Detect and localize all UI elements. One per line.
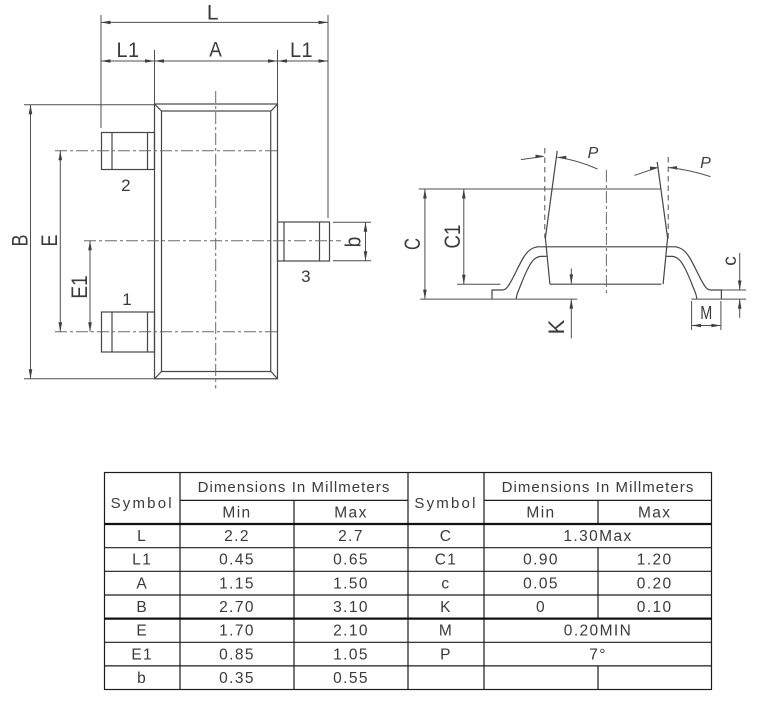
angle dimension P left — [521, 145, 599, 169]
body top edge with C extension — [419, 188, 662, 190]
svg-text:L1: L1 — [117, 39, 140, 62]
svg-text:E: E — [37, 235, 62, 247]
svg-text:1.70: 1.70 — [219, 623, 255, 640]
svg-text:c: c — [720, 256, 741, 266]
svg-text:0.05: 0.05 — [523, 575, 559, 592]
svg-text:3.10: 3.10 — [333, 599, 369, 616]
svg-text:b: b — [341, 237, 366, 248]
lead entry line — [537, 246, 676, 248]
svg-text:Min: Min — [526, 505, 555, 522]
svg-text:L: L — [207, 2, 219, 25]
svg-text:B: B — [8, 235, 33, 247]
svg-text:0.10: 0.10 — [637, 599, 673, 616]
dimension C — [400, 189, 427, 299]
svg-text:0.20MIN: 0.20MIN — [564, 623, 632, 640]
svg-text:1.05: 1.05 — [333, 646, 369, 663]
left lead under-body edge — [545, 238, 550, 284]
svg-text:Symbol: Symbol — [111, 495, 174, 512]
svg-text:3: 3 — [301, 267, 310, 286]
dimension B — [8, 105, 155, 379]
svg-text:2.10: 2.10 — [333, 623, 369, 640]
right angle reference dashed line — [667, 157, 669, 240]
pin 3 — [278, 222, 330, 261]
dimension E — [37, 151, 62, 332]
dimension K — [544, 269, 573, 339]
svg-text:C1: C1 — [435, 552, 458, 569]
svg-text:E1: E1 — [131, 646, 153, 663]
dimension E1 — [67, 241, 92, 332]
svg-text:0.90: 0.90 — [523, 552, 559, 569]
svg-text:0.55: 0.55 — [333, 670, 369, 687]
svg-text:B: B — [136, 599, 148, 616]
body left side line — [545, 151, 557, 238]
svg-text:Symbol: Symbol — [414, 495, 477, 512]
dimension b — [333, 222, 371, 260]
dimension M — [692, 301, 721, 330]
svg-text:0.20: 0.20 — [637, 575, 673, 592]
svg-text:2.70: 2.70 — [219, 599, 255, 616]
svg-text:P: P — [440, 646, 452, 663]
svg-text:b: b — [137, 670, 147, 687]
svg-text:2.2: 2.2 — [224, 528, 250, 545]
svg-text:K: K — [544, 319, 569, 334]
svg-text:Max: Max — [334, 505, 367, 522]
svg-text:Dimensions In Millmeters: Dimensions In Millmeters — [198, 479, 391, 496]
dimension C1 — [440, 189, 466, 284]
svg-text:0.65: 0.65 — [333, 552, 369, 569]
svg-text:1.50: 1.50 — [333, 575, 369, 592]
svg-text:1.30Max: 1.30Max — [563, 528, 632, 545]
svg-text:C1: C1 — [440, 225, 465, 249]
pin 2 centerline — [55, 150, 278, 152]
pin 3 centerline — [84, 240, 341, 242]
svg-text:1.20: 1.20 — [637, 552, 673, 569]
body centerline side view — [605, 170, 607, 296]
svg-text:C: C — [440, 528, 453, 545]
svg-text:M: M — [700, 303, 712, 323]
svg-text:0.45: 0.45 — [219, 552, 255, 569]
svg-text:2: 2 — [121, 176, 130, 195]
table outer border — [105, 473, 712, 690]
svg-text:0.35: 0.35 — [219, 670, 255, 687]
svg-text:E1: E1 — [67, 275, 92, 299]
svg-text:c: c — [441, 575, 450, 592]
left lead gull-wing — [492, 247, 547, 299]
dimension L1 (left) — [101, 39, 155, 63]
seating plane right — [691, 298, 746, 300]
svg-text:C: C — [400, 238, 425, 250]
foot top extension right — [721, 289, 746, 291]
dimension A — [155, 39, 278, 104]
svg-text:0.85: 0.85 — [219, 646, 255, 663]
table data rows — [131, 528, 672, 687]
svg-text:L1: L1 — [290, 39, 313, 62]
body vertical centerline — [215, 91, 217, 389]
svg-text:0: 0 — [536, 599, 546, 616]
svg-text:E: E — [136, 623, 148, 640]
svg-text:A: A — [209, 39, 222, 62]
right lead under-body edge — [663, 238, 668, 284]
body bottom edge with C1 extension — [457, 283, 500, 285]
svg-text:1.15: 1.15 — [219, 575, 255, 592]
svg-text:Max: Max — [638, 505, 671, 522]
svg-text:M: M — [439, 623, 453, 640]
svg-text:A: A — [136, 575, 148, 592]
svg-text:L: L — [137, 528, 147, 545]
pin 2 — [102, 133, 155, 170]
svg-text:P: P — [588, 145, 599, 162]
dimension L1 (right) — [278, 39, 329, 63]
body right side line — [657, 162, 667, 238]
svg-text:1: 1 — [122, 290, 131, 309]
left angle reference dashed line — [544, 148, 546, 238]
right lead gull-wing — [666, 247, 722, 299]
svg-text:Min: Min — [222, 505, 251, 522]
svg-text:L1: L1 — [132, 552, 152, 569]
pin 1 centerline — [55, 331, 278, 333]
dimension L — [101, 2, 328, 219]
body outline top view — [155, 104, 278, 379]
seating plane left — [420, 298, 577, 300]
dimension c — [720, 253, 742, 318]
table horizontal lines — [180, 499, 408, 501]
svg-text:2.7: 2.7 — [338, 528, 364, 545]
svg-text:K: K — [440, 599, 452, 616]
svg-text:7°: 7° — [589, 646, 607, 663]
table header text — [111, 479, 695, 522]
pin 1 — [102, 312, 155, 352]
table vertical lines — [179, 473, 181, 690]
svg-text:Dimensions In Millmeters: Dimensions In Millmeters — [502, 479, 695, 496]
angle dimension P right — [635, 155, 712, 177]
svg-text:P: P — [700, 155, 711, 172]
